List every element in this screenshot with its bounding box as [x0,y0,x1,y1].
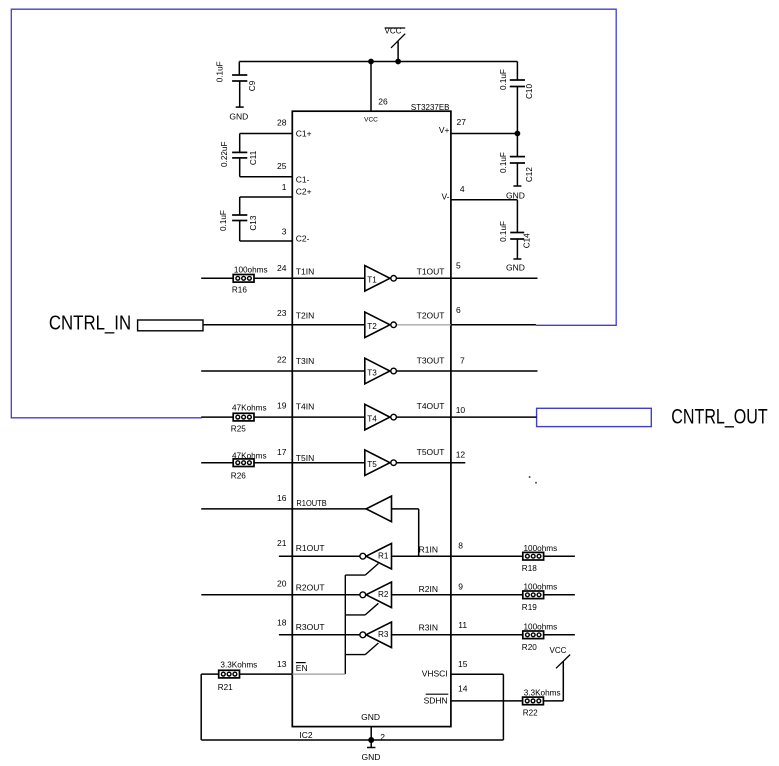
svg-text:GND: GND [361,752,380,762]
svg-text:1: 1 [282,182,287,192]
svg-text:CNTRL_IN: CNTRL_IN [49,311,131,334]
svg-text:R16: R16 [232,285,247,294]
svg-text:23: 23 [277,308,287,318]
svg-text:3: 3 [282,227,287,237]
svg-text:R1IN: R1IN [419,544,438,554]
svg-text:T4IN: T4IN [296,402,314,412]
svg-text:100ohms: 100ohms [524,623,558,632]
svg-text:2: 2 [380,732,385,742]
svg-text:R18: R18 [522,564,537,573]
svg-text:V-: V- [441,191,449,201]
svg-text:10: 10 [456,405,466,415]
svg-text:4: 4 [460,184,465,194]
svg-text:T3IN: T3IN [296,356,314,366]
svg-text:6: 6 [456,305,461,315]
svg-text:C2+: C2+ [296,187,312,197]
svg-text:R1: R1 [378,551,389,560]
svg-text:15: 15 [458,659,468,669]
svg-text:17: 17 [277,447,287,457]
svg-text:R1OUT: R1OUT [296,543,325,553]
svg-text:IC2: IC2 [299,730,313,740]
svg-text:26: 26 [378,97,388,107]
svg-text:R2OUT: R2OUT [296,583,325,593]
svg-text:GND: GND [229,112,248,122]
svg-text:0.1uF: 0.1uF [499,152,508,173]
svg-text:C1+: C1+ [296,129,312,139]
svg-text:3.3Kohms: 3.3Kohms [220,661,257,670]
svg-text:8: 8 [458,541,463,551]
svg-text:T1OUT: T1OUT [417,266,445,276]
svg-text:C12: C12 [525,167,534,182]
svg-text:R21: R21 [218,683,233,692]
svg-text:R3: R3 [378,630,389,639]
svg-text:18: 18 [277,618,287,628]
svg-text:9: 9 [458,581,463,591]
svg-text:13: 13 [277,659,287,669]
svg-text:47Kohms: 47Kohms [232,403,267,412]
svg-text:0.1uF: 0.1uF [499,69,508,90]
svg-text:EN: EN [296,663,308,673]
svg-text:VCC: VCC [364,117,378,124]
svg-text:T3OUT: T3OUT [417,355,445,365]
svg-text:T3: T3 [367,368,377,377]
svg-text:ST3237EB: ST3237EB [411,102,450,112]
svg-text:25: 25 [277,161,287,171]
svg-text:T2: T2 [367,322,377,331]
svg-text:C13: C13 [249,215,258,230]
svg-text:R2IN: R2IN [419,584,438,594]
svg-text:T5IN: T5IN [296,453,314,463]
svg-text:14: 14 [458,683,468,693]
svg-text:T4OUT: T4OUT [417,401,445,411]
svg-text:0.22uF: 0.22uF [220,142,229,168]
svg-text:C1-: C1- [296,174,310,184]
svg-text:CNTRL_OUT: CNTRL_OUT [671,405,768,428]
svg-text:24: 24 [277,263,287,273]
svg-text:27: 27 [457,117,467,127]
svg-text:T4: T4 [367,414,377,423]
svg-text:100ohms: 100ohms [524,544,558,553]
svg-text:T2OUT: T2OUT [417,310,445,320]
svg-text:R19: R19 [522,603,537,612]
svg-text:VHSCI: VHSCI [422,669,448,679]
svg-text:R26: R26 [231,472,246,481]
svg-text:5: 5 [456,261,461,271]
svg-text:VCC: VCC [385,27,402,36]
svg-text:16: 16 [277,493,287,503]
svg-text:T5OUT: T5OUT [417,447,445,457]
svg-text:21: 21 [277,538,287,548]
svg-text:7: 7 [460,356,465,366]
svg-text:0.1uF: 0.1uF [499,221,508,242]
svg-text:C2-: C2- [296,233,310,243]
svg-text:100ohms: 100ohms [524,583,558,592]
svg-text:0.1uF: 0.1uF [215,61,224,82]
svg-text:100ohms: 100ohms [234,266,268,275]
svg-text:T1IN: T1IN [296,267,314,277]
svg-text:R2: R2 [378,590,389,599]
svg-text:11: 11 [458,620,467,630]
svg-text:VCC: VCC [550,646,567,655]
svg-text:C11: C11 [249,150,258,165]
svg-text:22: 22 [277,354,287,364]
svg-text:28: 28 [277,118,287,128]
svg-text:V+: V+ [439,125,450,135]
svg-text:12: 12 [456,450,466,460]
svg-text:47Kohms: 47Kohms [232,451,267,460]
svg-text:GND: GND [506,263,525,273]
svg-text:R22: R22 [523,708,538,717]
svg-text:R20: R20 [522,643,537,652]
svg-text:SDHN: SDHN [424,695,448,705]
svg-text:R3IN: R3IN [419,623,438,633]
svg-text:GND: GND [361,712,380,722]
svg-text:3.3Kohms: 3.3Kohms [524,688,561,697]
svg-text:20: 20 [277,579,287,589]
svg-text:T2IN: T2IN [296,311,314,321]
svg-text:T1: T1 [367,276,377,285]
svg-text:19: 19 [277,401,287,411]
svg-text:R3OUT: R3OUT [296,622,325,632]
svg-text:T5: T5 [367,460,377,469]
svg-text:C14: C14 [523,233,532,248]
svg-text:0.1uF: 0.1uF [219,210,228,231]
svg-text:R25: R25 [231,425,246,434]
svg-text:C9: C9 [248,80,257,91]
svg-text:C10: C10 [525,84,534,99]
svg-text:R1OUTB: R1OUTB [296,498,327,508]
